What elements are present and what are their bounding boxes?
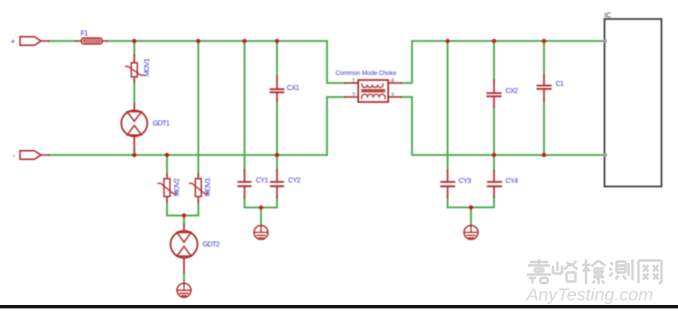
svg-text:MOV2: MOV2 bbox=[172, 178, 181, 196]
IC pin endpoint bottom bbox=[603, 153, 607, 157]
svg-text:MOV1: MOV1 bbox=[142, 58, 151, 76]
wire choke pin4 to right top rail bbox=[401, 41, 605, 83]
wire CX2 branch bbox=[493, 41, 495, 155]
connector P- input bbox=[20, 151, 49, 159]
svg-text:MOV3: MOV3 bbox=[203, 178, 212, 196]
IC pin endpoint top bbox=[603, 39, 607, 43]
svg-text:CX2: CX2 bbox=[506, 86, 519, 95]
varistor MOV2 bbox=[158, 174, 176, 202]
watermark chinese text bbox=[527, 260, 662, 285]
bottom separator bar bbox=[0, 305, 678, 308]
svg-text:2: 2 bbox=[352, 92, 356, 99]
wire CY1 branch from top rail bbox=[244, 41, 246, 170]
wire left corner down to choke pin1 level bbox=[327, 41, 345, 83]
earth ground below CY3/CY4 bbox=[464, 225, 478, 239]
svg-text:CY1: CY1 bbox=[256, 176, 269, 185]
wire CY2 branch from bottom rail bbox=[276, 155, 278, 170]
earth ground below GDT2 bbox=[177, 283, 191, 297]
wire CY4 branch from bottom rail bbox=[493, 155, 495, 171]
capacitor CX1 bbox=[271, 76, 284, 101]
gas discharge tube GDT2 bbox=[171, 224, 198, 272]
common mode choke U1 bbox=[345, 80, 401, 102]
junction bottom rail at C1 bbox=[542, 153, 546, 157]
wire left corner up to choke pin2 level bbox=[327, 97, 345, 155]
wire top rail from fuse to left corner bbox=[49, 40, 327, 42]
svg-text:-: - bbox=[13, 151, 16, 160]
svg-text:CY4: CY4 bbox=[506, 176, 519, 185]
junction bottom rail at CX2/CY4 bbox=[492, 153, 496, 157]
junction top rail at C1 bbox=[542, 39, 546, 43]
wire C1 branch bbox=[543, 41, 545, 155]
svg-text:1: 1 bbox=[352, 78, 356, 85]
junction bottom rail at GDT1 bbox=[132, 153, 136, 157]
capacitor C1 bbox=[537, 76, 550, 102]
wire choke pin3 to right bottom rail bbox=[401, 97, 605, 155]
svg-text:Common Mode Choke: Common Mode Choke bbox=[336, 70, 397, 77]
wire CY1-CY2 join to earth bbox=[245, 197, 278, 225]
junction bottom rail at MOV2 bbox=[165, 153, 169, 157]
earth ground below CY1/CY2 bbox=[254, 225, 268, 239]
junction bottom rail at CX1/CY2 bbox=[275, 153, 279, 157]
gas discharge tube GDT1 bbox=[121, 104, 147, 151]
svg-text:F1: F1 bbox=[81, 29, 89, 38]
wire CY3 branch from top rail bbox=[447, 41, 449, 171]
wire CX1 branch bbox=[276, 41, 278, 155]
connector P+ input bbox=[20, 37, 49, 45]
svg-text:CX1: CX1 bbox=[287, 83, 300, 92]
junction top rail at CY3 bbox=[446, 39, 450, 43]
capacitor CY1 bbox=[238, 170, 250, 197]
junction MOV2/MOV3 to GDT2 bbox=[182, 213, 186, 217]
svg-text:IC: IC bbox=[604, 13, 611, 20]
wire CY3-CY4 join to earth bbox=[448, 197, 494, 226]
capacitor CY3 bbox=[441, 171, 454, 197]
junction top rail at CX1 bbox=[275, 39, 279, 43]
junction CY1/CY2 to earth bbox=[259, 205, 263, 209]
svg-text:AnyTesting.com: AnyTesting.com bbox=[526, 285, 654, 305]
svg-text:GDT2: GDT2 bbox=[203, 240, 220, 249]
wire MOV1/GDT1 branch bbox=[133, 41, 135, 155]
capacitor CX2 bbox=[487, 80, 500, 107]
varistor MOV3 bbox=[190, 174, 208, 202]
junction top rail at MOV1 bbox=[132, 39, 136, 43]
capacitor CY2 bbox=[271, 170, 283, 197]
capacitor CY4 bbox=[488, 171, 501, 197]
wire bottom rail left bbox=[49, 154, 327, 156]
svg-text:GDT1: GDT1 bbox=[153, 118, 170, 127]
IC U2 block bbox=[605, 19, 662, 187]
svg-text:+: + bbox=[11, 37, 16, 46]
junction top rail at MOV3 bbox=[196, 39, 200, 43]
wire MOV3 branch from top rail bbox=[197, 41, 199, 174]
wire MOV2-MOV3 join to GDT2 bbox=[167, 202, 198, 225]
svg-text:CY3: CY3 bbox=[459, 176, 472, 185]
wire MOV2 branch from bottom rail bbox=[166, 155, 168, 174]
fuse F1 bbox=[76, 38, 107, 44]
junction top rail at CY1 bbox=[242, 39, 246, 43]
varistor MOV1 bbox=[126, 55, 144, 82]
svg-text:4: 4 bbox=[391, 78, 395, 85]
junction CY3/CY4 to earth bbox=[469, 205, 473, 209]
junction top rail at CX2 bbox=[492, 39, 496, 43]
svg-text:CY2: CY2 bbox=[288, 176, 301, 185]
svg-text:C1: C1 bbox=[556, 79, 565, 88]
wire GDT2 to earth bbox=[183, 272, 185, 283]
svg-text:3: 3 bbox=[391, 92, 395, 99]
